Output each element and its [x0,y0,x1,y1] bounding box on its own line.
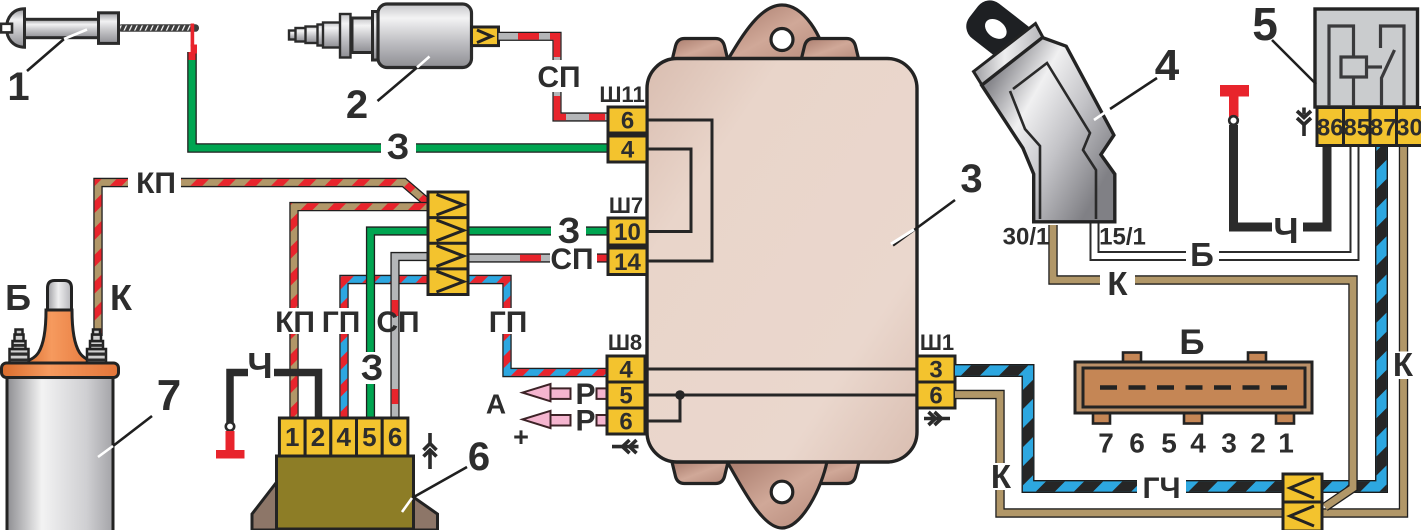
wire ГП (blue/red) joint connector to block 6 pin 4 [344,280,428,419]
svg-text:КП: КП [275,306,315,339]
fuse block Б with mounting tabs [1093,353,1294,424]
internal branch to Ш8-6 with junction dot [645,395,680,421]
svg-text:З: З [361,347,384,388]
relay pins 86 85 87 30 [1317,108,1421,146]
joint connector (4-way chevron block) [428,192,468,295]
svg-text:5: 5 [619,383,632,410]
wire ГЧ (blue/black) Ш1 pin 3 to relay pin 87 [955,145,1382,487]
connector Ш7 pins 10 and 14 [608,218,647,275]
svg-text:15/1: 15/1 [1099,224,1146,251]
block 6 housing (ЭПХХ connector block) [252,481,278,530]
svg-text:К: К [991,458,1012,495]
svg-text:Ш11: Ш11 [599,82,644,107]
svg-text:5: 5 [1161,428,1177,459]
svg-text:1: 1 [285,422,299,452]
svg-text:3: 3 [960,157,982,201]
svg-text:86: 86 [1317,115,1344,142]
svg-text:7: 7 [1098,428,1114,459]
wire КП joint connector to block 6 pin 1 [294,207,428,418]
svg-text:СП: СП [376,306,419,339]
svg-text:87: 87 [1370,115,1397,142]
svg-text:4: 4 [1190,428,1206,459]
arrow Р into Ш8 pin 5 [523,384,608,401]
svg-text:К: К [1393,346,1414,383]
coil terminal Б (bolt) [10,330,29,364]
ground symbol (red) at block 6 [226,431,235,451]
ignition switch lock ring [974,24,1044,86]
svg-text:К: К [110,277,133,318]
relay coil symbol with leads to pins 86 and 85 [1329,26,1382,107]
svg-text:30/1: 30/1 [1003,224,1050,251]
screw with spring, item 1 (seal screw of carburetor) [1,9,199,47]
wire СП (grey/red) valve 2 to Ш11 pin 6 [499,36,608,117]
svg-text:30: 30 [1396,115,1421,142]
svg-text:Б: Б [5,277,31,318]
svg-text:6: 6 [1129,428,1145,459]
svg-text:Ч: Ч [1273,210,1298,251]
connector plug of valve 2 [472,27,499,46]
wire Ч (black) block 6 pin 2 to ground [230,373,319,423]
svg-text:6: 6 [468,435,490,479]
svg-text:ГП: ГП [489,306,528,339]
connector Ш1 pins 3 and 6 [917,356,955,408]
wire К (brown) Ш1 pin 6 to relay pin 30 [955,145,1404,513]
svg-text:6: 6 [619,409,632,436]
svg-text:1: 1 [1278,428,1294,459]
connector Ш8 pins 4 5 6 [607,356,645,434]
block 6 pins 1 2 4 5 6 [279,418,408,456]
svg-text:Ш1: Ш1 [920,330,954,355]
connector Ш11 pins 6 and 4 [608,107,647,162]
svg-text:5: 5 [362,422,376,452]
orientation arrow at relay [1297,108,1311,137]
wire ГП (blue/red) joint connector to Ш8 pin 4 [468,280,607,373]
svg-text:2: 2 [1250,428,1266,459]
wire Б (white) switch terminal 15/1 to relay pin 85 [1095,145,1355,256]
svg-text:4: 4 [1155,41,1180,90]
svg-text:2: 2 [311,422,325,452]
svg-text:Р: Р [575,405,595,438]
svg-text:6: 6 [621,108,634,135]
ignition coil, item 7 [2,281,119,530]
coil terminal К (bolt) [87,330,106,364]
wire З (green) block 6 pin 5 to joint connector and to Ш7 pin 10 [371,231,608,418]
wire К (brown) switch terminal 30/1 to inline connector [1053,225,1353,507]
svg-text:85: 85 [1343,115,1370,142]
wire СП (grey/red) block 6 pin 6 to joint connector and to Ш7 pin 14 [395,257,607,419]
svg-text:1: 1 [7,65,29,109]
orientation arrow at block 6 [424,433,437,469]
orientation arrow at Ш8 [612,440,639,453]
svg-text:К: К [1107,265,1128,302]
svg-text:З: З [558,210,581,251]
svg-text:СП: СП [537,61,580,94]
svg-text:14: 14 [614,249,641,276]
svg-text:10: 10 [614,219,641,246]
fuse numbers 7 6 5 4 3 2 1 [1098,428,1294,459]
svg-text:Б: Б [1179,323,1204,362]
ignition switch, item 4 (key) [960,0,1061,87]
wire Ч (black) ground to relay pin 86 [1234,125,1328,227]
internal link Ш11-6 to Ш7-14 [645,120,712,261]
svg-text:ГП: ГП [322,306,361,339]
svg-text:Ш8: Ш8 [608,330,642,355]
solenoid valve, item 2 (ЭПХХ valve) [289,4,472,68]
svg-text:4: 4 [336,422,351,452]
svg-text:Ш7: Ш7 [609,193,643,218]
inline connector (2-way chevron block) bottom right [1283,474,1322,530]
svg-text:4: 4 [619,357,633,384]
svg-text:2: 2 [346,83,368,127]
svg-text:4: 4 [621,137,635,164]
svg-text:3: 3 [929,357,942,384]
internal link Ш8-5 to Ш1-6 [645,394,917,397]
orientation arrow at Ш1 [924,412,950,425]
svg-text:З: З [387,126,410,167]
svg-text:3: 3 [1221,428,1237,459]
svg-text:Ч: Ч [247,345,272,386]
ignition switch body [982,38,1115,222]
internal link Ш11-4 to Ш7-10 [645,149,691,232]
svg-text:А: А [486,389,506,420]
wire З (green) from screw 1 to Ш11 pin 4 [191,45,607,149]
ground symbol (red T) at relay [1220,85,1249,97]
svg-text:6: 6 [388,422,402,452]
svg-text:7: 7 [157,371,181,420]
control unit 3 (ЭПХХ control box) with mounting ears [672,5,859,528]
arrow Р into Ш8 pin 6 [523,411,608,428]
svg-text:6: 6 [929,383,942,410]
relay 5 body [1315,9,1418,107]
relay contact symbol with leads to pins 87 and 30 [1381,26,1405,107]
wire КП (tan/red) coil К terminal to joint connector [98,183,429,337]
internal link Ш8-4 to Ш1-3 [645,368,917,371]
svg-text:Б: Б [1190,236,1214,273]
svg-text:ГЧ: ГЧ [1142,472,1180,505]
svg-text:КП: КП [136,167,176,200]
svg-text:+: + [513,422,529,452]
